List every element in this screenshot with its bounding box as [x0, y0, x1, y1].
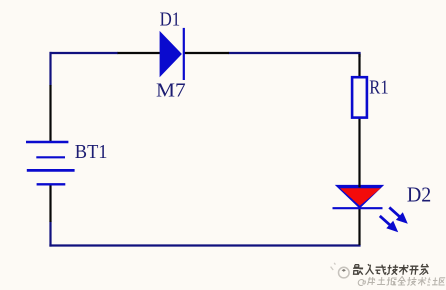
svg-text:D1: D1: [160, 9, 181, 31]
battery BT1 plate 1 (long top): [26, 141, 68, 143]
发: [420, 264, 429, 275]
LED D2 bottom pin: [358, 208, 360, 246]
watermark text line 1: 嵌入式技术开发 (drawn strokes): [353, 264, 429, 275]
LED D2 emission arrow 1: [389, 207, 408, 223]
wire left vertical upper: [49, 52, 51, 86]
diode D1 right pin: [184, 52, 230, 54]
svg-text:M7: M7: [156, 80, 186, 102]
wire left vertical lower: [49, 222, 51, 247]
LED D2 triangle: [335, 185, 384, 209]
术: [399, 265, 409, 275]
resistor R1 bottom pin / wire to LED: [358, 118, 360, 186]
LED D2 cathode bar: [333, 207, 383, 209]
金: [398, 277, 406, 286]
wire top-left segment: [50, 52, 119, 54]
术: [418, 277, 427, 286]
battery BT1 bottom pin: [49, 185, 51, 223]
watermark logo tick left: [331, 263, 336, 270]
wire bottom segment: [49, 244, 360, 246]
技: [387, 265, 399, 275]
LED D2 emission arrow 2: [380, 216, 398, 232]
battery BT1 plate 2 (short): [36, 156, 65, 158]
式: [375, 265, 387, 275]
svg-text:BT1: BT1: [75, 141, 108, 163]
resistor R1 top pin: [358, 54, 360, 77]
@: [358, 280, 366, 286]
resistor R1 body: [352, 77, 367, 117]
battery BT1 top pin: [49, 85, 51, 142]
入: [366, 264, 375, 275]
区: [439, 278, 445, 285]
LED D2 anode pin stub through outline: [358, 185, 360, 188]
LED D2 triangle red fill: [340, 188, 381, 206]
土: [377, 277, 386, 285]
diode D1 cathode bar: [183, 28, 185, 80]
battery BT1 plate 3 (long): [27, 169, 75, 172]
开: [409, 266, 419, 275]
嵌: [353, 265, 364, 275]
wire top-right segment: [229, 52, 361, 54]
watermark text line 2: @稀土掘金技术社区 (drawn strokes): [358, 277, 445, 286]
diode D1 left pin: [118, 52, 161, 54]
wire right vertical stub at top corner: [358, 53, 360, 57]
svg-text:R1: R1: [369, 77, 388, 99]
diode D1 triangle: [160, 31, 182, 77]
掘: [387, 277, 397, 285]
svg-text:D2: D2: [407, 183, 431, 207]
watermark logo circle: [339, 267, 350, 278]
社: [427, 278, 438, 286]
battery BT1 plate 4 (short bottom): [37, 183, 66, 185]
技: [407, 277, 417, 286]
watermark logo inner mark: [342, 269, 346, 272]
稀: [368, 277, 376, 285]
